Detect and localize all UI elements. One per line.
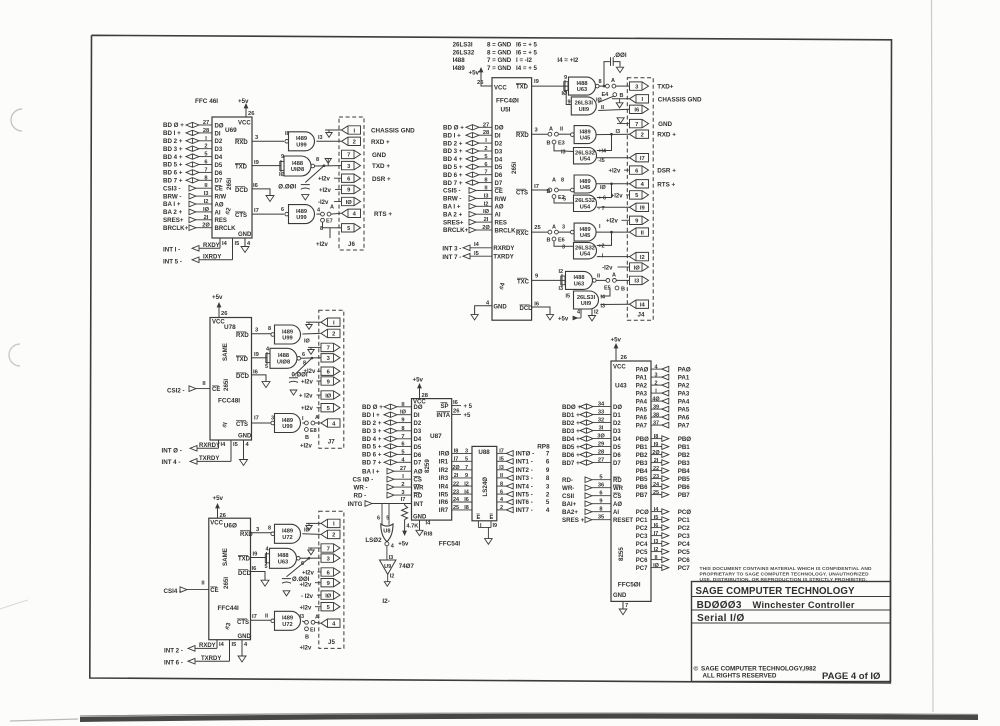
- svg-text:U72: U72: [282, 535, 292, 541]
- svg-text:I6: I6: [654, 523, 659, 529]
- svg-text:IØ: IØ: [600, 185, 607, 191]
- svg-text:U78: U78: [224, 324, 236, 331]
- svg-text:I488: I488: [277, 553, 288, 559]
- svg-text:PA3: PA3: [678, 390, 690, 397]
- svg-text:+5: +5: [464, 413, 472, 419]
- svg-text:E4: E4: [602, 92, 610, 98]
- svg-text:D6: D6: [495, 173, 503, 179]
- svg-text:BD 6 +: BD 6 +: [443, 172, 463, 179]
- svg-text:PROPRIETARY TO SAGE COMPUTER T: PROPRIETARY TO SAGE COMPUTER TECHNOLOGY.…: [700, 571, 870, 577]
- svg-text:PCØ: PCØ: [678, 509, 692, 516]
- svg-text:II: II: [204, 183, 208, 189]
- svg-text:2: 2: [332, 533, 335, 539]
- svg-text:IØ: IØ: [279, 172, 286, 178]
- svg-text:WR: WR: [613, 486, 624, 492]
- svg-text:28: 28: [422, 393, 429, 399]
- svg-text:PB5: PB5: [678, 476, 691, 483]
- svg-text:GND: GND: [658, 121, 672, 128]
- svg-text:6: 6: [484, 162, 487, 168]
- svg-text:8259: 8259: [424, 459, 431, 473]
- svg-text:- 7: - 7: [598, 206, 604, 212]
- svg-text:FCC48I: FCC48I: [218, 398, 240, 405]
- svg-text:2I: 2I: [204, 215, 209, 221]
- svg-text:IØ: IØ: [634, 265, 641, 271]
- svg-text:GND: GND: [413, 514, 427, 520]
- svg-text:9: 9: [546, 467, 550, 474]
- svg-text:PC5: PC5: [678, 549, 691, 556]
- svg-text:CE: CE: [212, 387, 220, 393]
- svg-text:265I: 265I: [511, 162, 518, 174]
- svg-text:- I2v: - I2v: [301, 594, 314, 600]
- svg-text:D6: D6: [613, 453, 621, 459]
- svg-text:INTG: INTG: [348, 501, 363, 508]
- svg-text:4.7K: 4.7K: [406, 524, 419, 530]
- svg-text:2: 2: [500, 505, 503, 511]
- svg-text:5: 5: [599, 475, 602, 481]
- svg-text:©: ©: [694, 665, 699, 673]
- svg-text:RXD: RXD: [235, 140, 248, 146]
- svg-text:I6 = + 5: I6 = + 5: [516, 42, 538, 49]
- svg-text:2Ø: 2Ø: [652, 450, 660, 456]
- svg-text:25: 25: [534, 225, 541, 231]
- svg-text:AI: AI: [215, 210, 221, 216]
- svg-text:D5: D5: [414, 445, 422, 451]
- svg-text:+5v: +5v: [238, 98, 249, 105]
- svg-text:3: 3: [546, 483, 550, 490]
- svg-text:26LS32: 26LS32: [575, 246, 595, 252]
- svg-text:I488: I488: [573, 275, 584, 281]
- svg-text:E6: E6: [558, 238, 565, 244]
- svg-text:D7: D7: [215, 179, 223, 185]
- svg-text:29: 29: [598, 442, 604, 448]
- svg-text:BD 3 +: BD 3 +: [362, 428, 382, 435]
- svg-text:9: 9: [465, 473, 468, 479]
- svg-text:CS IØ -: CS IØ -: [353, 476, 374, 483]
- svg-text:U87: U87: [430, 433, 442, 440]
- svg-text:I7: I7: [534, 184, 539, 190]
- svg-text:AI: AI: [613, 510, 619, 516]
- svg-text:2Ø: 2Ø: [452, 465, 460, 471]
- svg-text:28: 28: [598, 450, 604, 456]
- svg-text:RXRDY: RXRDY: [199, 443, 220, 449]
- svg-text:2Ø: 2Ø: [202, 223, 210, 229]
- svg-text:A: A: [612, 273, 616, 279]
- svg-text:INT Ø -: INT Ø -: [162, 448, 182, 455]
- svg-text:8: 8: [599, 507, 602, 513]
- svg-text:TXD: TXD: [236, 357, 249, 363]
- svg-text:TXD: TXD: [238, 557, 251, 563]
- svg-text:3I: 3I: [599, 426, 604, 432]
- svg-text:RXC: RXC: [516, 231, 529, 237]
- svg-text:27: 27: [203, 120, 209, 126]
- svg-text:RTS +: RTS +: [657, 181, 675, 188]
- svg-text:I9: I9: [493, 523, 498, 529]
- svg-text:I9: I9: [534, 79, 540, 85]
- svg-text:BD 3 +: BD 3 +: [163, 146, 183, 153]
- svg-text:ALL RIGHTS RESERVED: ALL RIGHTS RESERVED: [703, 672, 777, 679]
- svg-text:I2: I2: [640, 255, 645, 261]
- svg-text:E: E: [477, 515, 481, 521]
- svg-text:CE: CE: [495, 189, 503, 195]
- svg-text:8: 8: [561, 178, 564, 184]
- svg-text:2: 2: [654, 380, 657, 386]
- svg-text:I4: I4: [219, 642, 225, 648]
- svg-text:PC3: PC3: [678, 533, 691, 540]
- svg-text:7: 7: [327, 346, 330, 352]
- svg-text:I4: I4: [426, 521, 432, 527]
- svg-text:I3: I3: [499, 465, 504, 471]
- svg-text:FFC54I: FFC54I: [439, 541, 461, 548]
- svg-text:U63: U63: [574, 281, 584, 287]
- svg-text:D2: D2: [215, 139, 223, 145]
- svg-text:PB4: PB4: [678, 468, 691, 475]
- svg-text:2: 2: [204, 144, 207, 150]
- svg-text:7: 7: [625, 603, 628, 609]
- svg-text:PB3: PB3: [636, 461, 648, 467]
- svg-text:TXRDY: TXRDY: [201, 656, 221, 662]
- svg-text:FFC44I: FFC44I: [218, 605, 240, 612]
- svg-text:8: 8: [599, 79, 602, 85]
- svg-text:+I2v: +I2v: [318, 177, 331, 183]
- svg-text:I7: I7: [640, 156, 645, 162]
- svg-text:D7: D7: [613, 461, 621, 467]
- svg-text:BD 4 +: BD 4 +: [163, 154, 183, 161]
- svg-text:I488: I488: [292, 161, 303, 167]
- svg-text:PBØ: PBØ: [636, 437, 649, 443]
- svg-text:AI: AI: [495, 213, 501, 219]
- svg-text:BD 2 +: BD 2 +: [163, 138, 183, 145]
- svg-text:28: 28: [483, 130, 489, 136]
- svg-text:II: II: [654, 555, 658, 561]
- svg-text:6: 6: [204, 160, 207, 166]
- svg-text:-I2v: -I2v: [318, 200, 329, 206]
- svg-text:I6: I6: [634, 108, 640, 114]
- svg-text:I489: I489: [282, 329, 293, 335]
- svg-text:6: 6: [302, 352, 305, 358]
- svg-text:35: 35: [598, 515, 604, 521]
- svg-text:I4: I4: [221, 442, 227, 448]
- svg-text:CSI2 -: CSI2 -: [167, 388, 185, 395]
- svg-text:DI: DI: [215, 131, 221, 137]
- svg-text:26LS3I: 26LS3I: [577, 295, 596, 301]
- svg-text:IØ: IØ: [203, 207, 210, 213]
- svg-text:2: 2: [401, 482, 404, 488]
- svg-text:FFC5ØI: FFC5ØI: [618, 582, 641, 589]
- svg-text:U43: U43: [615, 383, 627, 390]
- svg-text:PB2: PB2: [636, 453, 648, 459]
- svg-text:IR5: IR5: [439, 492, 449, 498]
- svg-text:I7: I7: [499, 449, 504, 455]
- svg-text:INT6 -: INT6 -: [516, 499, 533, 506]
- svg-text:U6Ø: U6Ø: [224, 523, 237, 530]
- svg-text:BD 5 +: BD 5 +: [362, 444, 382, 451]
- svg-text:3: 3: [401, 490, 404, 496]
- svg-text:PB1: PB1: [678, 444, 691, 451]
- svg-text:BD Ø +: BD Ø +: [362, 404, 383, 411]
- svg-text:E7: E7: [326, 219, 333, 225]
- svg-text:AØ: AØ: [495, 205, 504, 211]
- svg-text:BA 2 +: BA 2 +: [163, 209, 183, 216]
- svg-text:9: 9: [281, 154, 284, 160]
- svg-text:27: 27: [483, 122, 489, 128]
- svg-text:I5: I5: [566, 294, 571, 300]
- svg-text:CE: CE: [215, 187, 223, 193]
- svg-text:INT 2 -: INT 2 -: [164, 648, 183, 655]
- svg-text:RXD: RXD: [236, 333, 249, 339]
- svg-text:I489: I489: [580, 179, 591, 185]
- svg-text:6: 6: [377, 516, 380, 522]
- svg-text:+I2v: +I2v: [316, 242, 329, 248]
- svg-text:I3: I3: [300, 614, 305, 620]
- svg-text:PA3: PA3: [636, 391, 648, 397]
- svg-text:+5v: +5v: [469, 70, 480, 77]
- svg-text:PC1: PC1: [636, 518, 648, 524]
- svg-text:2: 2: [641, 133, 644, 139]
- svg-text:I6: I6: [253, 183, 259, 189]
- svg-text:5: 5: [265, 564, 268, 570]
- svg-text:II: II: [285, 131, 289, 137]
- svg-text:PC6: PC6: [636, 558, 648, 564]
- svg-text:I2-: I2-: [382, 598, 389, 605]
- svg-text:+I2v: +I2v: [300, 606, 313, 612]
- svg-text:+5v: +5v: [213, 495, 224, 502]
- svg-text:+I2v: +I2v: [301, 380, 314, 386]
- svg-text:2I: 2I: [484, 217, 489, 223]
- svg-text:IØ: IØ: [325, 393, 332, 399]
- svg-text:BD 6 +: BD 6 +: [163, 170, 183, 177]
- svg-text:PA7: PA7: [678, 422, 690, 429]
- svg-text:25: 25: [653, 490, 659, 496]
- svg-text:7: 7: [484, 170, 487, 176]
- svg-text:CS: CS: [414, 478, 422, 484]
- svg-text:9: 9: [564, 75, 567, 81]
- svg-text:2: 2: [546, 491, 550, 498]
- svg-text:PB6: PB6: [636, 485, 648, 491]
- svg-text:I9: I9: [253, 552, 259, 558]
- svg-text:U69: U69: [225, 127, 237, 134]
- svg-text:PC2: PC2: [678, 525, 691, 532]
- svg-text:I9: I9: [654, 442, 659, 448]
- svg-text:PA6: PA6: [678, 414, 690, 421]
- svg-text:PB3: PB3: [678, 460, 691, 467]
- svg-text:2I: 2I: [654, 458, 659, 464]
- svg-text:26LS32: 26LS32: [575, 151, 595, 157]
- svg-text:CE: CE: [210, 588, 218, 594]
- svg-text:+I2v: +I2v: [606, 219, 619, 225]
- svg-text:-I2v: -I2v: [602, 266, 613, 272]
- svg-text:INTA: INTA: [437, 413, 451, 419]
- svg-text:265I: 265I: [226, 178, 233, 190]
- svg-text:BRCLK: BRCLK: [495, 228, 517, 234]
- svg-text:BD 4 +: BD 4 +: [443, 156, 463, 163]
- svg-text:I488: I488: [453, 57, 466, 64]
- svg-text:INT 7 -: INT 7 -: [442, 254, 461, 261]
- svg-text:VCC: VCC: [210, 521, 223, 527]
- svg-text:B: B: [547, 238, 551, 244]
- svg-text:Serial I/Ø: Serial I/Ø: [697, 613, 745, 624]
- svg-text:8 = GND: 8 = GND: [487, 49, 512, 56]
- svg-text:SAME: SAME: [222, 343, 229, 361]
- svg-text:+ 6: + 6: [598, 196, 606, 202]
- svg-text:I8: I8: [654, 434, 659, 440]
- svg-text:R/W: R/W: [215, 195, 227, 201]
- svg-text:7: 7: [546, 451, 550, 458]
- svg-text:RD: RD: [414, 494, 423, 500]
- svg-text:265I: 265I: [223, 577, 230, 589]
- svg-text:CSI3 -: CSI3 -: [163, 185, 181, 192]
- svg-text:BDØØØ3: BDØØØ3: [697, 600, 742, 611]
- svg-text:TXC: TXC: [517, 279, 530, 285]
- svg-text:I5: I5: [233, 442, 238, 448]
- svg-text:CS: CS: [613, 494, 621, 500]
- svg-text:4: 4: [546, 507, 550, 514]
- svg-text:PA6: PA6: [636, 415, 648, 421]
- svg-text:26: 26: [453, 409, 460, 415]
- svg-text:DI: DI: [414, 413, 420, 419]
- svg-text:9: 9: [599, 499, 602, 505]
- svg-text:7: 7: [327, 546, 330, 552]
- svg-text:BRW -: BRW -: [163, 193, 181, 200]
- svg-text:D5: D5: [215, 163, 223, 169]
- svg-text:D3: D3: [414, 429, 422, 435]
- svg-text:IØ: IØ: [562, 91, 569, 97]
- svg-text:CTS: CTS: [235, 213, 247, 219]
- svg-text:D5: D5: [613, 445, 621, 451]
- svg-text:5: 5: [546, 499, 550, 506]
- svg-text:I5: I5: [235, 241, 240, 247]
- svg-text:PC6: PC6: [678, 557, 691, 564]
- svg-text:BD I +: BD I +: [362, 412, 380, 419]
- svg-text:+I2v: +I2v: [609, 169, 622, 175]
- svg-text:SRES +: SRES +: [562, 517, 585, 524]
- svg-text:PB4: PB4: [636, 469, 648, 475]
- svg-text:+I2v: +I2v: [300, 582, 313, 588]
- svg-text:5: 5: [204, 152, 207, 158]
- svg-text:INTØ -: INTØ -: [516, 451, 535, 458]
- svg-text:5: 5: [465, 457, 468, 463]
- svg-text:+5v: +5v: [558, 317, 569, 323]
- svg-text:CTS: CTS: [516, 190, 528, 196]
- svg-text:D4: D4: [215, 155, 223, 161]
- svg-text:2: 2: [332, 332, 335, 338]
- svg-text:I7: I7: [654, 531, 659, 537]
- svg-text:U45: U45: [580, 185, 590, 191]
- svg-text:+I2v: +I2v: [302, 571, 315, 577]
- svg-text:TXD+: TXD+: [657, 84, 674, 91]
- svg-text:26: 26: [221, 311, 228, 317]
- svg-text:+ I2v: + I2v: [299, 394, 313, 400]
- svg-text:U54: U54: [580, 157, 591, 163]
- svg-text:GND: GND: [372, 152, 386, 159]
- svg-text:CSI4 -: CSI4 -: [164, 588, 182, 595]
- svg-text:BRCLK+: BRCLK+: [443, 227, 469, 234]
- svg-text:PA5: PA5: [678, 406, 690, 413]
- svg-text:74Ø7: 74Ø7: [399, 563, 415, 570]
- svg-text:I489: I489: [580, 227, 591, 233]
- svg-text:I488: I488: [278, 353, 289, 359]
- svg-text:3: 3: [465, 449, 468, 455]
- svg-text:IØ: IØ: [346, 200, 353, 206]
- svg-text:DI: DI: [495, 134, 501, 140]
- svg-text:AØ: AØ: [414, 470, 423, 476]
- svg-text:PC3: PC3: [636, 534, 648, 540]
- svg-text:D3: D3: [215, 147, 223, 153]
- svg-text:II: II: [202, 381, 206, 387]
- svg-text:23: 23: [653, 474, 659, 480]
- svg-text:BA2+: BA2+: [562, 509, 578, 516]
- svg-text:IR1: IR1: [439, 460, 449, 466]
- svg-text:PC4: PC4: [636, 542, 648, 548]
- svg-text:CSI5 -: CSI5 -: [443, 188, 461, 195]
- svg-text:PAØ: PAØ: [636, 367, 649, 373]
- svg-text:A: A: [552, 225, 556, 231]
- svg-text:INT5 -: INT5 -: [516, 491, 533, 498]
- svg-text:RTS +: RTS +: [374, 211, 392, 218]
- svg-text:PC7: PC7: [636, 566, 648, 572]
- svg-text:D4: D4: [414, 437, 422, 443]
- svg-text:RXD +: RXD +: [657, 132, 676, 139]
- svg-text:3Ø: 3Ø: [597, 434, 605, 440]
- svg-text:I489: I489: [296, 209, 307, 215]
- svg-text:D7: D7: [495, 181, 503, 187]
- svg-text:BD 7 +: BD 7 +: [163, 178, 183, 185]
- svg-text:BA I +: BA I +: [362, 468, 380, 475]
- svg-text:U8: U8: [383, 529, 390, 535]
- svg-text:I2: I2: [204, 199, 209, 205]
- svg-text:II: II: [265, 614, 269, 620]
- svg-text:I6 = + 5: I6 = + 5: [516, 49, 538, 56]
- svg-text:U99: U99: [282, 336, 292, 342]
- svg-text:26: 26: [477, 80, 484, 86]
- svg-text:RD: RD: [613, 478, 622, 484]
- svg-text:A: A: [552, 178, 556, 184]
- svg-text:2Ø: 2Ø: [482, 225, 490, 231]
- svg-text:I7: I7: [401, 497, 406, 503]
- svg-text:5: 5: [563, 197, 566, 203]
- svg-text:B: B: [621, 287, 625, 293]
- svg-text:IØ: IØ: [653, 563, 660, 569]
- svg-text:+ 5: + 5: [464, 404, 473, 410]
- svg-text:II: II: [500, 473, 504, 479]
- svg-text:7: 7: [347, 153, 350, 159]
- svg-text:U72: U72: [282, 622, 292, 628]
- svg-text:E: E: [490, 515, 494, 521]
- svg-text:I5: I5: [654, 515, 659, 521]
- svg-text:CTS: CTS: [236, 422, 248, 428]
- svg-text:I6: I6: [453, 400, 459, 406]
- svg-text:+I2v: +I2v: [301, 406, 314, 412]
- svg-text:J5: J5: [328, 639, 335, 646]
- svg-text:2: 2: [353, 140, 356, 146]
- svg-text:BD1 +: BD1 +: [562, 412, 580, 419]
- svg-text:I9: I9: [640, 206, 646, 212]
- svg-text:Ø.ØØI: Ø.ØØI: [278, 183, 296, 190]
- svg-text:BD I +: BD I +: [443, 132, 461, 139]
- svg-text:D2: D2: [414, 421, 422, 427]
- svg-text:RXRDY: RXRDY: [493, 246, 514, 252]
- svg-text:PCØ: PCØ: [636, 510, 649, 516]
- svg-text:I489: I489: [580, 129, 591, 135]
- svg-text:II: II: [597, 274, 601, 280]
- svg-text:7 = GND: 7 = GND: [487, 57, 512, 64]
- svg-text:BRCLK: BRCLK: [215, 226, 237, 232]
- svg-text:6: 6: [546, 459, 550, 466]
- svg-text:6: 6: [281, 207, 284, 213]
- svg-text:D3: D3: [613, 429, 621, 435]
- svg-text:DØ: DØ: [414, 405, 423, 411]
- svg-text:5: 5: [484, 154, 487, 160]
- svg-text:UII9: UII9: [579, 107, 589, 113]
